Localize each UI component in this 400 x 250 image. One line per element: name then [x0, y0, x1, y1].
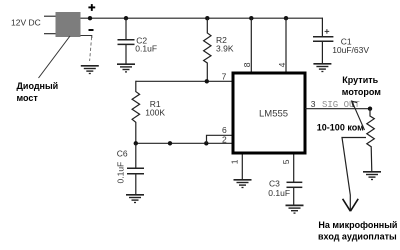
minus sign at bridge output: [89, 29, 94, 31]
node C2 junction: [124, 16, 128, 20]
node R1/C6 junction: [134, 141, 138, 145]
svg-text:10-100 ком: 10-100 ком: [317, 123, 364, 133]
wire pin 6 branch: [207, 135, 234, 143]
svg-text:4: 4: [277, 62, 287, 67]
resistor R2: [204, 18, 211, 81]
wire C3 bottom lead: [293, 187, 295, 205]
wire pin 8 drop: [250, 18, 252, 72]
node R2 bottom junction: [205, 79, 209, 83]
capacitor C3: [287, 182, 303, 187]
wire pin 3 output: [305, 108, 370, 110]
plus sign C1: [325, 29, 330, 34]
potentiometer 10-100k body: [367, 109, 375, 172]
wire C2 bottom lead: [125, 44, 127, 64]
wire top rail corner to C1: [321, 18, 323, 36]
svg-text:На микрофонный: На микрофонный: [318, 220, 397, 230]
svg-text:3: 3: [311, 99, 316, 109]
node pin8 junction: [249, 16, 253, 20]
svg-text:6: 6: [222, 125, 227, 135]
svg-text:0.1uF: 0.1uF: [135, 44, 157, 54]
svg-text:7: 7: [222, 72, 227, 82]
wire pin 2 rail: [136, 142, 233, 144]
pot wiper diagonal arrow: [352, 101, 365, 130]
wire pin 1 lead: [241, 155, 243, 180]
wire C1 bottom lead: [321, 41, 323, 64]
svg-text:0.1uF: 0.1uF: [268, 188, 290, 198]
leader line to diode bridge label: [39, 36, 71, 78]
op-amp/timer U1 LM555 body: [233, 73, 305, 153]
ground under C3: [286, 205, 304, 213]
wire minus stub from bridge: [81, 36, 92, 39]
capacitor C1: [313, 37, 333, 41]
node pot top junction: [368, 107, 372, 111]
svg-text:0.1uF: 0.1uF: [115, 162, 125, 184]
wire dashed drop to ground: [90, 37, 92, 61]
wire top supply rail: [81, 17, 323, 19]
ground under bridge minus: [81, 66, 99, 74]
svg-text:C6: C6: [117, 148, 128, 158]
wire AC input stub bottom: [44, 33, 56, 35]
capacitor C6: [127, 143, 144, 195]
wire pin 7 rail: [136, 80, 233, 82]
svg-text:вход аудиоплаты: вход аудиоплаты: [318, 231, 397, 241]
wire AC input stub top: [44, 15, 56, 17]
svg-text:LM555: LM555: [259, 108, 288, 119]
wire C2 top lead: [125, 18, 127, 39]
wire pin 4 drop: [285, 18, 287, 72]
svg-text:10uF/63V: 10uF/63V: [332, 45, 369, 55]
node bridge + junction: [88, 16, 92, 20]
svg-text:8: 8: [242, 62, 252, 67]
ground under C2: [117, 64, 135, 72]
svg-text:мотором: мотором: [342, 87, 381, 97]
wire wiper to mic output: [342, 138, 366, 210]
svg-text:12V DC: 12V DC: [11, 18, 41, 28]
ground under potentiometer: [363, 172, 381, 180]
node pin6 branch junction: [204, 141, 208, 145]
svg-text:Крутить: Крутить: [342, 75, 378, 85]
ground under pin 1: [234, 180, 252, 188]
diode bridge (gray box): [56, 12, 81, 37]
node mid junction: [168, 141, 172, 145]
svg-text:Диодный: Диодный: [17, 81, 59, 91]
svg-text:C3: C3: [269, 179, 280, 189]
resistor R1: [132, 81, 140, 144]
capacitor C2: [118, 40, 135, 45]
svg-text:5: 5: [281, 159, 291, 164]
node R2 top junction: [205, 16, 209, 20]
wire pin 5 lead: [293, 155, 295, 183]
svg-text:мост: мост: [17, 93, 39, 103]
svg-text:2: 2: [222, 135, 227, 145]
plus sign at bridge output: [88, 4, 95, 11]
ground under C6: [126, 195, 144, 203]
svg-text:3.9K: 3.9K: [216, 43, 234, 53]
svg-text:100K: 100K: [145, 108, 165, 118]
arrowhead to mic input: [343, 199, 359, 211]
svg-text:1: 1: [229, 159, 239, 164]
ground under C1: [313, 64, 331, 72]
node pin4 junction: [284, 16, 288, 20]
